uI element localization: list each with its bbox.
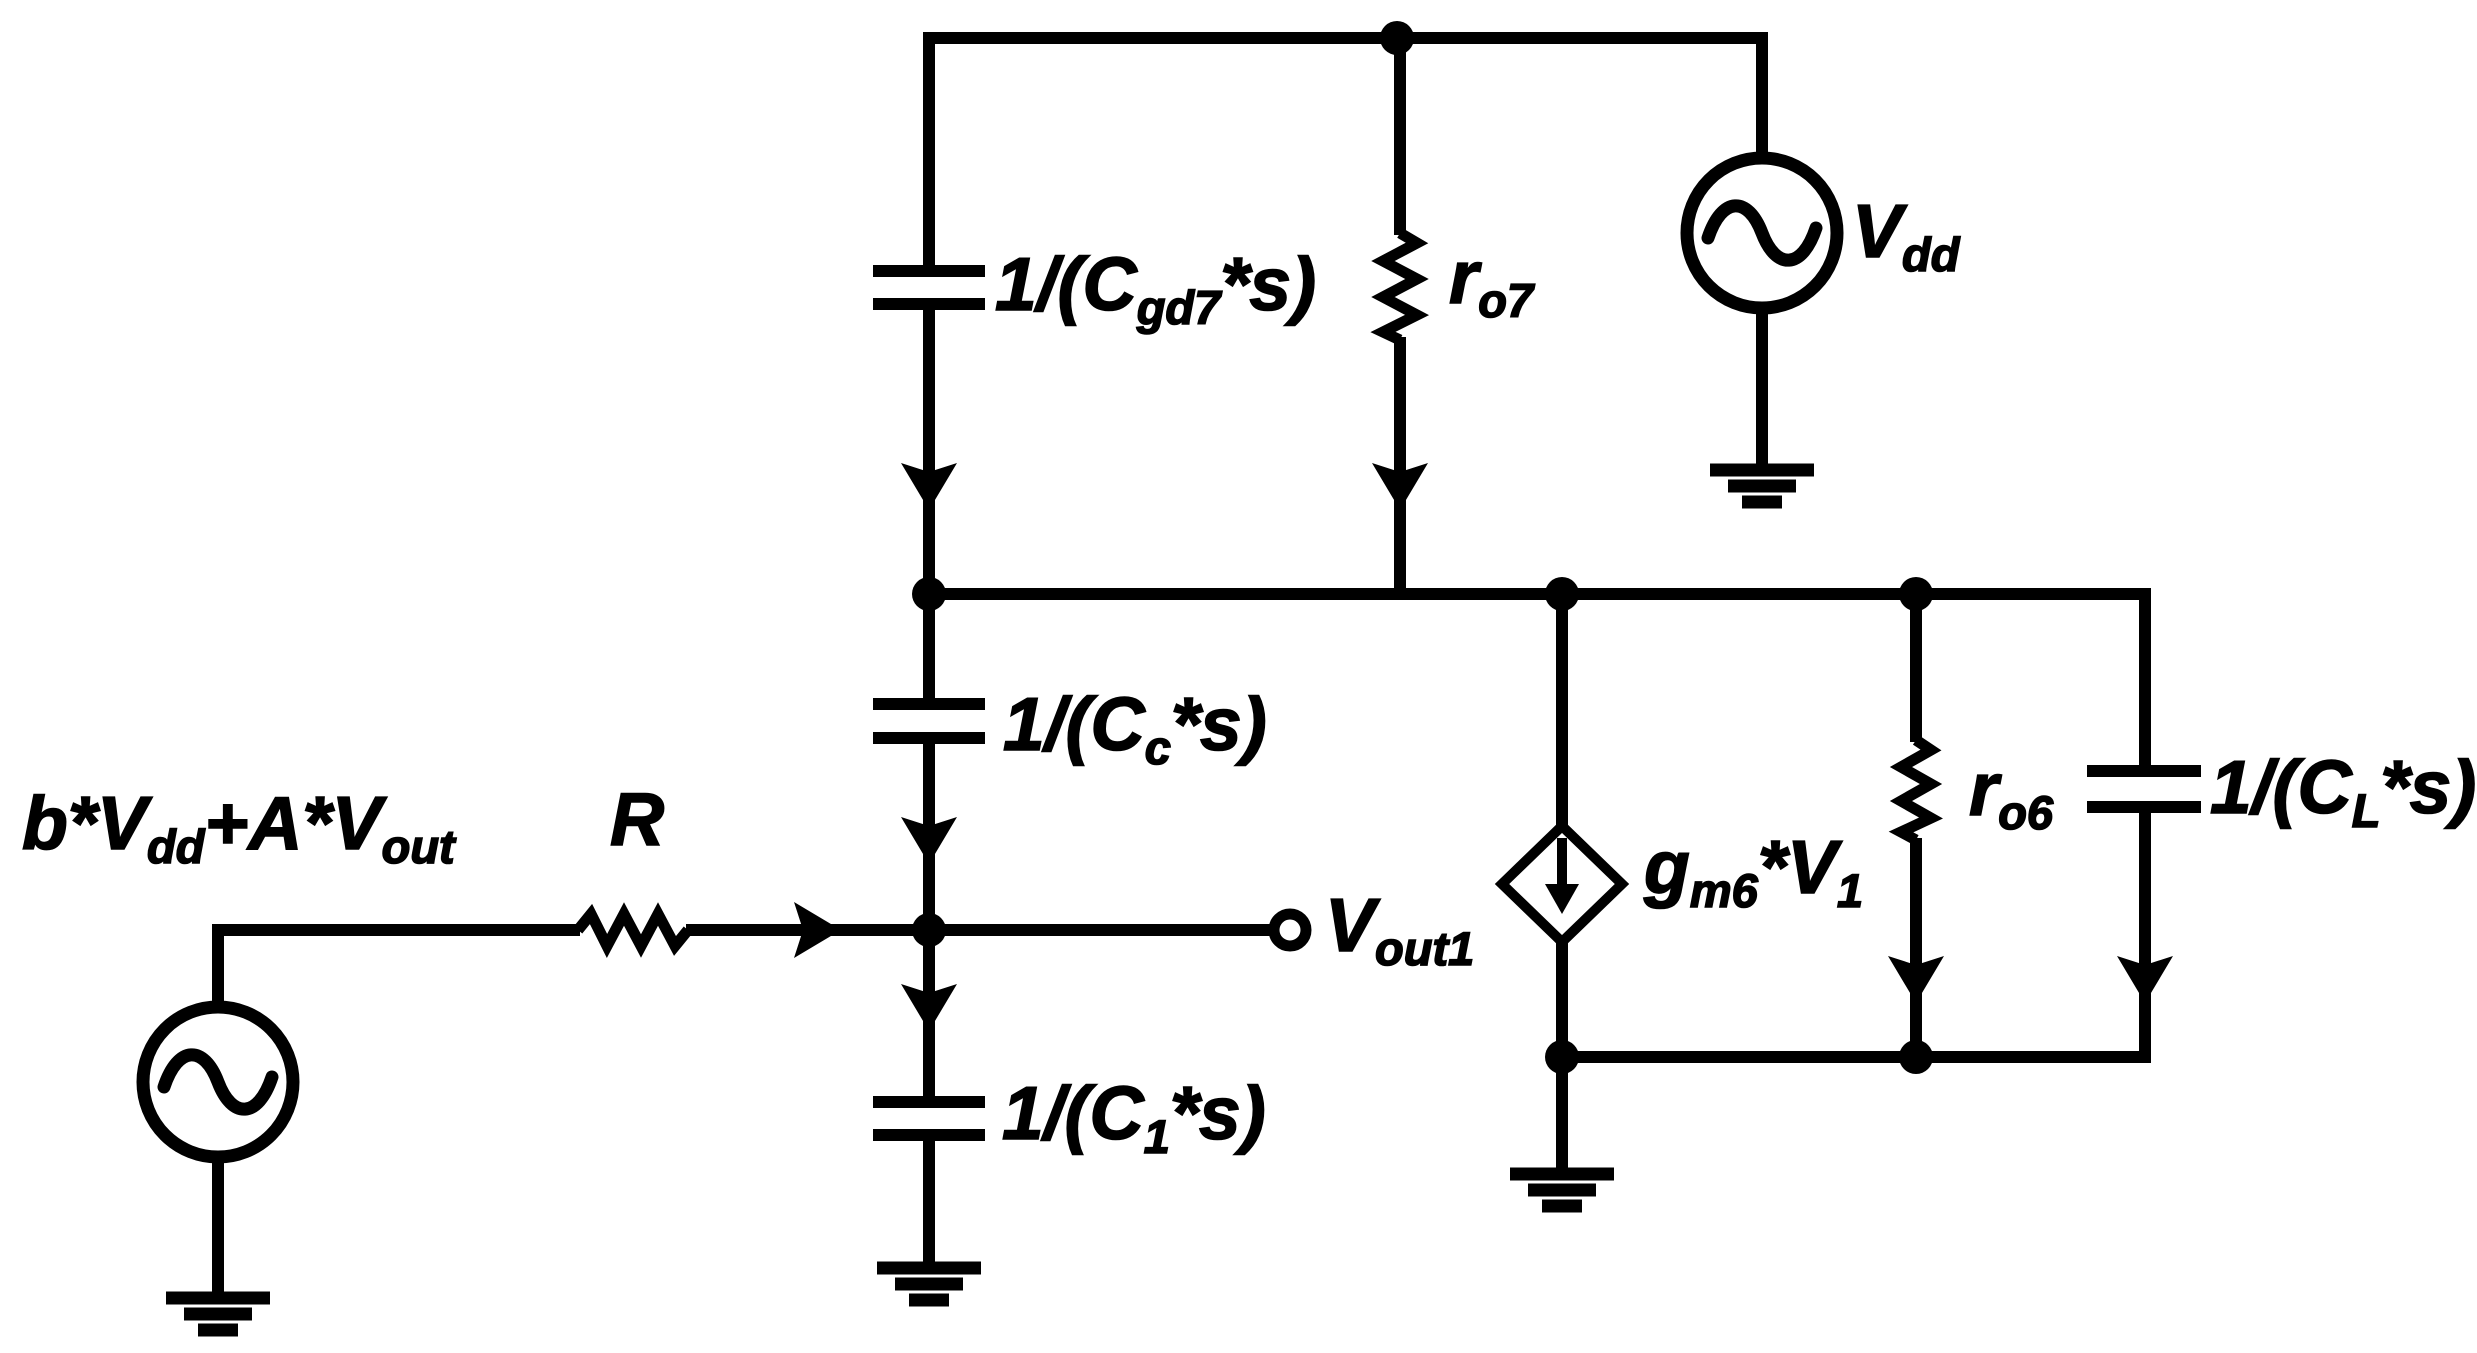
current arrow C_c branch — [901, 817, 957, 864]
source V_dd — [1687, 158, 1837, 308]
wire node bus — [929, 594, 2145, 767]
wire r_o7 top drop — [1394, 44, 1406, 235]
terminal V_out1 — [1274, 914, 1306, 946]
svg-text:ro7: ro7 — [1449, 235, 1535, 327]
svg-text:Vout1: Vout1 — [1325, 883, 1474, 975]
ground (V_dd) — [1710, 470, 1814, 502]
capacitor C_L — [2087, 771, 2201, 807]
resistor R — [578, 914, 688, 946]
svg-text:1/(C1*s): 1/(C1*s) — [1002, 1071, 1266, 1163]
current arrow R input — [794, 902, 841, 958]
wire r_o6 top — [1910, 594, 1922, 742]
wire top bus — [929, 38, 1762, 265]
ground (g_m6) — [1510, 1174, 1614, 1206]
wire C_c bottom to Vout1 node — [923, 742, 935, 930]
ground (input source) — [166, 1298, 270, 1330]
wire C_1 top — [923, 930, 935, 1098]
capacitor C_c — [873, 704, 985, 738]
current arrow r_o6 branch — [1888, 956, 1944, 1003]
node middle r_o6 junction — [1899, 577, 1933, 611]
wire R to node — [686, 924, 929, 936]
wire C_L column bottom and bottom bus — [1562, 811, 2145, 1057]
wire C_c top — [923, 594, 935, 700]
svg-text:1/(Cc*s): 1/(Cc*s) — [1003, 682, 1267, 774]
current arrow C_L branch — [2117, 956, 2173, 1003]
node middle g_m6 junction — [1545, 577, 1579, 611]
wire r_o6 bottom — [1910, 838, 1922, 1057]
wire input horizontal left of R — [218, 930, 580, 1020]
svg-text:1/(Cgd7*s): 1/(Cgd7*s) — [995, 242, 1316, 334]
svg-text:R: R — [610, 777, 664, 861]
wire C_1 bottom to ground — [923, 1139, 935, 1263]
dependent source g_m6*V_1 diamond — [1502, 826, 1622, 942]
wire r_o7 bottom to node — [1394, 337, 1406, 594]
source V_in (b*Vdd+A*Vout) — [143, 1007, 293, 1157]
node middle-left junction — [912, 577, 946, 611]
current arrow r_o7 branch — [1372, 463, 1428, 510]
node bottom r_o6 junction — [1899, 1040, 1933, 1074]
node top junction — [1380, 21, 1414, 55]
wire C_gd7 bottom to node — [923, 310, 935, 594]
wire g_m6 top — [1556, 594, 1568, 845]
svg-text:1/(CL*s): 1/(CL*s) — [2210, 745, 2476, 837]
current arrow C_gd7 branch — [901, 463, 957, 510]
wire node to Vout1 terminal — [929, 924, 1270, 936]
node Vout1 junction — [912, 913, 946, 947]
svg-text:Vdd: Vdd — [1852, 189, 1961, 281]
current arrow C_1 branch — [901, 984, 957, 1031]
resistor r_o6 — [1901, 740, 1931, 840]
wire Vdd source to ground — [1756, 295, 1768, 466]
capacitor C_1 — [873, 1102, 985, 1135]
ground (C_1) — [877, 1268, 981, 1300]
wire g_m6 ground drop — [1556, 1057, 1568, 1169]
capacitor C_gd7 — [873, 271, 985, 304]
svg-text:ro6: ro6 — [1969, 747, 2054, 839]
resistor r_o7 — [1383, 233, 1417, 340]
wire g_m6 bottom — [1556, 925, 1568, 1057]
svg-text:gm6*V1: gm6*V1 — [1643, 825, 1863, 917]
svg-text:b*Vdd+A*Vout: b*Vdd+A*Vout — [22, 781, 457, 873]
wire input source to ground — [212, 1145, 224, 1293]
node bottom g_m6 junction — [1545, 1040, 1579, 1074]
